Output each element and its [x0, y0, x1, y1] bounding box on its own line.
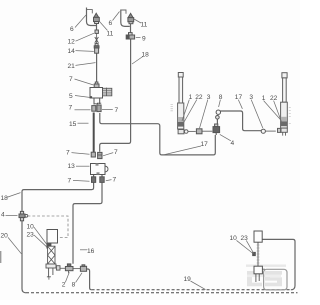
svg-text:22: 22	[270, 95, 278, 102]
svg-text:21: 21	[68, 63, 76, 70]
svg-text:7: 7	[114, 149, 118, 156]
svg-text:5: 5	[69, 93, 73, 100]
svg-text:3: 3	[249, 94, 253, 101]
svg-text:18: 18	[142, 52, 150, 59]
svg-text:7: 7	[115, 107, 119, 114]
svg-text:6: 6	[109, 20, 113, 27]
svg-text:1: 1	[262, 95, 266, 102]
svg-text:15: 15	[69, 121, 77, 128]
svg-text:2: 2	[62, 282, 66, 289]
svg-text:13: 13	[68, 163, 76, 170]
svg-text:4: 4	[1, 212, 5, 219]
svg-text:11: 11	[141, 22, 148, 29]
svg-text:10: 10	[27, 224, 35, 231]
svg-text:17: 17	[201, 141, 209, 148]
svg-text:7: 7	[113, 177, 117, 184]
svg-text:7: 7	[69, 105, 73, 112]
svg-text:10: 10	[230, 235, 238, 242]
svg-text:7: 7	[68, 178, 72, 185]
svg-text:1: 1	[189, 94, 193, 101]
svg-text:7: 7	[69, 76, 73, 83]
svg-text:16: 16	[87, 248, 95, 255]
svg-text:11: 11	[107, 31, 114, 38]
svg-text:17: 17	[235, 94, 243, 101]
svg-text:8: 8	[219, 94, 223, 101]
svg-text:18: 18	[1, 195, 9, 202]
svg-text:3: 3	[207, 94, 211, 101]
svg-text:23: 23	[27, 232, 35, 239]
svg-text:23: 23	[241, 235, 249, 242]
svg-text:8: 8	[72, 282, 76, 289]
svg-text:20: 20	[1, 233, 9, 240]
svg-text:9: 9	[142, 36, 146, 43]
svg-text:7: 7	[66, 150, 70, 157]
svg-text:14: 14	[68, 48, 76, 55]
svg-text:19: 19	[184, 276, 192, 283]
svg-text:6: 6	[70, 26, 74, 33]
svg-text:4: 4	[231, 140, 235, 147]
svg-text:12: 12	[68, 39, 76, 46]
svg-text:22: 22	[195, 94, 203, 101]
